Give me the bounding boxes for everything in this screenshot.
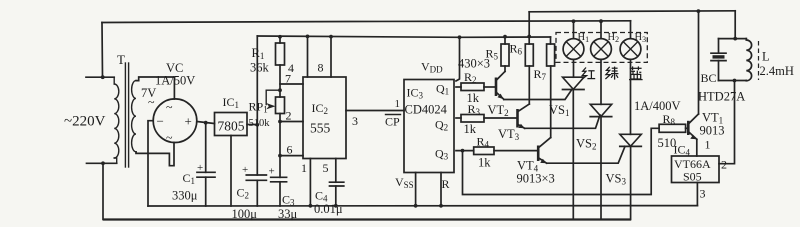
transformer T secondary winding — [132, 81, 136, 152]
wire: left riser from top bus to AC input — [101, 23, 104, 78]
svg-text:2: 2 — [286, 109, 292, 123]
wire: mains top bus — [102, 21, 631, 23]
thyristor VS3 — [620, 59, 642, 219]
label R6 — [510, 42, 523, 57]
label R7 — [534, 67, 547, 82]
transformer T core — [125, 63, 128, 167]
wire: AC input bottom lead — [87, 162, 117, 164]
wire: R3 to VT3 base — [484, 117, 517, 119]
label H2 — [608, 32, 620, 44]
label H1 — [578, 32, 590, 44]
label lan (blue) hand-drawn — [629, 66, 643, 79]
label C1 330u — [172, 171, 198, 203]
lamp H1 — [563, 21, 584, 59]
pin label 1 (CP) — [395, 98, 401, 110]
wire: 555 pin8 supply — [330, 37, 332, 77]
wire: VT3 emitter to VS2 gate — [525, 115, 600, 128]
node CP label with overline — [385, 115, 401, 129]
node: junction AC bottom — [101, 161, 105, 165]
label BC — [701, 71, 717, 85]
node: junction VDD on rail — [458, 35, 462, 39]
svg-text:−: − — [157, 114, 164, 129]
svg-text:RP1: RP1 — [249, 100, 268, 115]
label T — [117, 52, 125, 67]
label VC 1A/50V — [155, 61, 195, 88]
node: junction AC top — [101, 75, 105, 79]
label L 2.4mH with dashed mark — [759, 41, 794, 80]
svg-text:33μ: 33μ — [278, 207, 298, 221]
svg-text:Q3: Q3 — [435, 147, 449, 162]
svg-text:VT2: VT2 — [488, 103, 509, 118]
node: junction pin8 on rail — [329, 35, 333, 39]
node: junction dot H2 top on bus — [599, 19, 603, 23]
label VT3 — [498, 127, 520, 142]
svg-text:IC2: IC2 — [312, 101, 329, 116]
svg-text:1A/400V: 1A/400V — [634, 99, 681, 113]
svg-text:1k: 1k — [478, 156, 491, 170]
wire: 555 pin3 to CD4024 CP — [346, 110, 404, 112]
svg-text:100μ: 100μ — [232, 207, 258, 221]
label VT1 9013 — [700, 111, 725, 138]
resistor R7 — [547, 37, 555, 138]
node: junction pin6 node — [278, 154, 282, 158]
wire: 555 pin7 wire — [280, 83, 303, 85]
label VS3 — [606, 172, 627, 187]
svg-text:9013: 9013 — [700, 124, 725, 138]
capacitor C3 — [269, 156, 287, 206]
wire: R2 to VT2 base — [484, 86, 495, 88]
resistor R1 — [276, 37, 285, 90]
wire: pin2 node down to pin6 node — [279, 122, 281, 156]
wire: VT4 emitter to VS3 gate — [547, 146, 625, 163]
label VDD — [421, 60, 443, 75]
svg-text:7805: 7805 — [218, 119, 245, 134]
pin label 7 — [285, 72, 291, 86]
label H3 — [635, 32, 647, 44]
wire: Q1 output — [456, 86, 461, 88]
inductor L coil — [746, 39, 751, 81]
svg-text:7: 7 — [285, 72, 291, 86]
svg-text:IC3: IC3 — [407, 86, 424, 101]
lamp H2 — [591, 21, 612, 59]
svg-text:R: R — [442, 177, 450, 191]
svg-text:3: 3 — [700, 187, 706, 201]
svg-text:S05: S05 — [683, 170, 702, 184]
label 430x3 — [458, 57, 490, 71]
wire: tank bottom rail — [719, 80, 747, 82]
svg-text:1A/50V: 1A/50V — [155, 74, 195, 88]
pin label 2 — [286, 109, 292, 123]
label IC4 — [674, 143, 691, 158]
svg-text:VS2: VS2 — [576, 137, 596, 152]
wire: 7805 ground pin — [230, 136, 232, 207]
label 1A/400V — [634, 99, 681, 113]
wire: R4 to VT4 base — [494, 150, 537, 152]
wire: bridge minus output down to ground rail — [148, 121, 153, 206]
svg-text:VT3: VT3 — [498, 127, 520, 142]
node: junction dot H1 top on bus — [572, 19, 576, 23]
svg-text:~: ~ — [148, 95, 155, 109]
node: junction pin4 on rail — [306, 35, 310, 39]
wire: sync line Q3 to R8 — [463, 128, 660, 194]
label R4 1k — [477, 135, 492, 170]
label RP1 510k — [249, 100, 271, 130]
label VSS — [395, 175, 414, 190]
wire: secondary bottom lead to bridge — [136, 143, 174, 166]
resistor R2 — [461, 83, 484, 91]
label VT2 — [488, 103, 509, 118]
pin label 6 — [287, 143, 293, 157]
label R3 1k — [464, 102, 481, 136]
svg-text:VS1: VS1 — [549, 103, 569, 118]
svg-text:510k: 510k — [249, 118, 271, 129]
bridge rectifier VC — [153, 99, 197, 145]
wire: Q3 output — [456, 150, 474, 152]
svg-text:~: ~ — [166, 131, 173, 145]
svg-text:VSS: VSS — [395, 175, 414, 190]
node: junction R5 on rail — [503, 35, 507, 39]
svg-text:2: 2 — [721, 158, 727, 172]
svg-text:H2: H2 — [608, 32, 620, 44]
svg-text:1: 1 — [301, 161, 307, 175]
wire: R pin to ground — [440, 173, 442, 207]
thyristor VS1 — [563, 59, 585, 219]
pin label 4 — [288, 61, 294, 75]
capacitor C1 — [197, 123, 215, 206]
svg-text:Q2: Q2 — [435, 118, 448, 133]
piezo resonator BC — [711, 39, 726, 81]
node: junction tank top — [733, 37, 737, 41]
node: junction R6 on rail — [527, 35, 531, 39]
wire: VSS to ground — [415, 173, 417, 207]
op-amp IC2 555 timer box — [303, 77, 346, 159]
svg-text:1: 1 — [395, 98, 401, 110]
svg-text:R4: R4 — [477, 135, 490, 150]
svg-text:1: 1 — [705, 138, 711, 152]
label R1 36k — [250, 46, 270, 75]
node: junction VT1 collector on upper bus — [697, 9, 701, 13]
capacitor C4 — [330, 182, 344, 206]
label 7V with tilde — [141, 86, 156, 109]
transformer T primary winding — [114, 77, 119, 163]
svg-text:~220V: ~220V — [64, 114, 106, 130]
resistor R4 — [474, 147, 494, 155]
svg-text:R6: R6 — [510, 42, 523, 57]
svg-text:CD4024: CD4024 — [405, 103, 448, 117]
node: junction R1 bottom / wiper — [278, 88, 282, 92]
label C2 100u — [232, 186, 258, 222]
wire: 555 pin6 wire — [280, 155, 303, 157]
svg-text:330μ: 330μ — [172, 189, 198, 203]
wire: Q2 output — [456, 117, 461, 119]
svg-text:+: + — [185, 114, 192, 129]
label hong (red) hand-drawn — [582, 68, 596, 80]
svg-text:~: ~ — [166, 100, 173, 114]
transistor VT4 — [538, 138, 551, 164]
wire: 5V riser up to rail — [256, 36, 258, 125]
wire: 555 pin2 wire — [280, 121, 303, 123]
wire: VT2 emitter to VS1 gate — [504, 90, 572, 100]
svg-text:0.01μ: 0.01μ — [314, 202, 343, 216]
wire: VT1 emitter to IC4 pin1 — [696, 139, 698, 156]
lamp H3 — [620, 21, 641, 60]
resistor R8 — [659, 124, 688, 132]
svg-text:R2: R2 — [464, 70, 477, 85]
svg-text:T: T — [117, 52, 125, 67]
svg-text:BC: BC — [701, 71, 717, 85]
pin label 1 — [705, 138, 711, 152]
wire: AC input top lead — [86, 76, 114, 78]
node: junction C1 top — [204, 121, 208, 125]
label ~220V — [64, 114, 106, 130]
svg-text:555: 555 — [310, 121, 331, 136]
svg-text:R7: R7 — [534, 67, 547, 82]
thyristor VS2 — [590, 59, 612, 219]
svg-text:CP: CP — [385, 115, 400, 129]
lamp dashed group box — [556, 33, 647, 63]
label R5 — [486, 47, 499, 62]
label C4 0.01u — [314, 189, 343, 217]
svg-text:1k: 1k — [464, 122, 477, 136]
svg-text:R5: R5 — [486, 47, 499, 62]
svg-text:VDD: VDD — [421, 60, 443, 75]
wire: upper 5V bus over lamp box — [529, 11, 735, 12]
svg-text:2.4mH: 2.4mH — [760, 64, 794, 78]
svg-text:R1: R1 — [252, 46, 265, 61]
svg-text:L: L — [762, 50, 770, 64]
wire: bridge plus output to 7805 — [197, 122, 215, 124]
label C3 33u — [278, 193, 298, 222]
node: junction VSS ground — [414, 204, 418, 208]
svg-text:C3: C3 — [282, 193, 295, 208]
svg-text:36k: 36k — [250, 61, 270, 75]
wire: IC4 pin3 to ground rail — [696, 183, 698, 206]
label HTD27A — [698, 90, 745, 104]
label R2 1k — [464, 70, 480, 105]
capacitor C2 — [242, 125, 266, 207]
svg-text:C1: C1 — [183, 171, 196, 186]
label VT4 — [517, 159, 539, 174]
IC4 VT66A S05 box — [672, 156, 720, 184]
pin label 2 — [721, 158, 727, 172]
label R8 510 — [658, 112, 677, 150]
wire: upper bus corner down to tank top — [734, 11, 736, 39]
wire: VDD supply from rail — [456, 37, 460, 81]
label R pin — [442, 177, 450, 191]
svg-text:H3: H3 — [635, 32, 647, 44]
wire: VT1 collector to upper bus — [698, 11, 700, 114]
svg-text:9013×3: 9013×3 — [517, 172, 555, 186]
wire: mains bottom bus — [103, 218, 631, 220]
node: junction Q3 sync — [461, 149, 465, 153]
node: junction pin2 node — [278, 120, 282, 124]
svg-text:R8: R8 — [663, 112, 676, 127]
svg-text:HTD27A: HTD27A — [698, 90, 745, 104]
wire: 5V jog riser at x529 — [528, 12, 530, 44]
wire: ground rail — [148, 205, 697, 207]
transistor VT2 — [496, 71, 505, 99]
svg-text:C2: C2 — [237, 186, 250, 201]
pin label 3 — [352, 114, 358, 128]
svg-text:H1: H1 — [578, 32, 590, 44]
node: junction 7805 output — [255, 123, 259, 127]
node: junction R1 top on rail — [278, 35, 282, 39]
svg-text:3: 3 — [352, 114, 358, 128]
potentiometer RP1 — [266, 90, 284, 121]
pin label 3 — [700, 187, 706, 201]
label 9013x3 — [517, 172, 555, 186]
svg-text:Q1: Q1 — [436, 82, 449, 97]
label VS1 — [549, 103, 569, 118]
label IC1 — [223, 95, 240, 110]
node: junction C4 ground — [334, 204, 338, 208]
node: junction tank bottom — [733, 79, 737, 83]
node: junction R ground — [439, 204, 443, 208]
svg-text:+: + — [269, 166, 275, 178]
node: junction pin1 ground — [309, 204, 313, 208]
svg-text:IC1: IC1 — [223, 95, 240, 110]
wire: IC4 pin2 to tank bottom — [719, 81, 735, 164]
svg-text:8: 8 — [318, 61, 324, 75]
wire: 5V rail — [257, 36, 550, 37]
svg-text:6: 6 — [287, 143, 293, 157]
transistor VT3 — [518, 104, 530, 128]
wire: 555 pin5 to C4 — [335, 159, 337, 183]
transistor VT1 — [688, 114, 698, 139]
pin label 8 — [318, 61, 324, 75]
wire: tank top rail — [719, 38, 747, 40]
resistor R3 — [461, 115, 484, 123]
pin label 5 — [323, 161, 329, 175]
resistor R5 — [501, 37, 509, 72]
wire: left riser to bottom bus — [102, 163, 104, 219]
resistor R6 — [525, 44, 533, 104]
pin label 1 — [301, 161, 307, 175]
svg-text:+: + — [197, 162, 203, 174]
svg-text:VS3: VS3 — [606, 172, 627, 187]
label VS2 — [576, 137, 596, 152]
wire: 555 pin1 to ground — [309, 159, 311, 207]
label lv (green) hand-drawn — [605, 67, 618, 80]
wire: 555 pin4 supply — [307, 36, 309, 77]
svg-text:5: 5 — [323, 161, 329, 175]
wire: secondary top lead to bridge — [136, 77, 174, 99]
wire: 7805 output to 5V riser — [247, 124, 257, 126]
IC3 CD4024 counter box — [404, 80, 454, 173]
svg-text:+: + — [242, 164, 248, 176]
IC1 7805 regulator — [215, 113, 248, 136]
